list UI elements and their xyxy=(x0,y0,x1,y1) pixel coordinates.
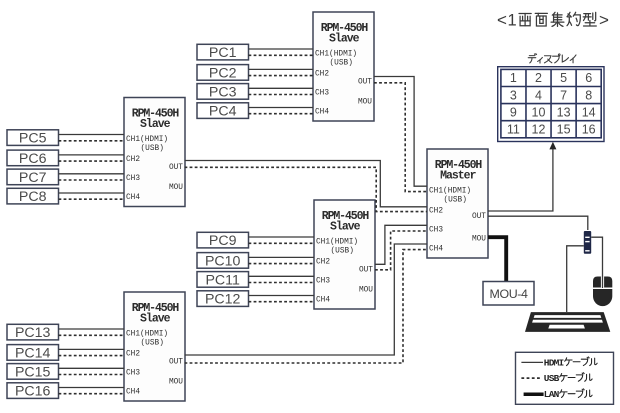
svg-text:CH2: CH2 xyxy=(126,350,140,358)
arrowhead into display xyxy=(549,142,556,150)
svg-text:MOU: MOU xyxy=(358,99,372,107)
svg-text:USB: USB xyxy=(544,373,560,384)
computer PC15 xyxy=(7,364,59,381)
HDMI wire PC9 to CH1 xyxy=(249,236,315,238)
legend HDMI cable sample xyxy=(521,361,543,363)
svg-text:Slave: Slave xyxy=(330,221,361,234)
USB wire PC1 to CH1 xyxy=(249,54,314,56)
USB wire PC5 to CH1 xyxy=(59,140,125,142)
svg-text:OUT: OUT xyxy=(472,213,486,221)
svg-text:PC1: PC1 xyxy=(209,45,237,61)
svg-text:CH1(HDMI): CH1(HDMI) xyxy=(315,51,357,59)
svg-text:CH1(HDMI): CH1(HDMI) xyxy=(126,331,168,339)
svg-text:HDMI: HDMI xyxy=(544,357,564,368)
svg-text:5: 5 xyxy=(560,71,567,85)
svg-text:CH2: CH2 xyxy=(315,70,329,78)
HDMI wire PC11 to CH3 xyxy=(249,275,315,277)
svg-text:CH3: CH3 xyxy=(429,226,443,234)
svg-text:9: 9 xyxy=(510,105,517,119)
svg-text:PC12: PC12 xyxy=(205,292,241,308)
mouse cable slit xyxy=(601,276,604,287)
svg-text:Slave: Slave xyxy=(140,313,171,326)
computer PC7 xyxy=(7,169,59,186)
HDMI wire PC10 to CH2 xyxy=(249,256,315,258)
svg-text:CH1(HDMI): CH1(HDMI) xyxy=(316,239,358,247)
svg-text:CH4: CH4 xyxy=(315,108,329,116)
USB wire PC9 to CH1 xyxy=(249,242,315,244)
svg-text:>: > xyxy=(599,11,609,30)
MOU-4 box xyxy=(483,282,534,306)
HDMI wire PC6 to CH2 xyxy=(59,154,125,156)
HDMI wire Master OUT to display (with arrow) xyxy=(488,148,553,211)
svg-text:CH3: CH3 xyxy=(126,175,140,183)
svg-text:MOU: MOU xyxy=(169,379,183,387)
svg-text:PC2: PC2 xyxy=(209,65,237,81)
svg-text:4: 4 xyxy=(535,88,542,102)
svg-text:CH4: CH4 xyxy=(429,245,443,253)
svg-text:OUT: OUT xyxy=(358,78,372,86)
svg-text:CH3: CH3 xyxy=(315,89,329,97)
svg-text:16: 16 xyxy=(582,122,596,136)
svg-text:PC13: PC13 xyxy=(15,325,51,341)
display (monitor grid) xyxy=(498,67,604,142)
USB wire PC2 to CH2 xyxy=(249,75,314,77)
USB wire PC8 to CH4 xyxy=(59,198,125,200)
unit S3 RPM-450H Slave xyxy=(314,200,375,309)
HDMI wire PC7 to CH3 xyxy=(59,173,125,175)
svg-text:7: 7 xyxy=(560,88,567,102)
HDMI wire PC15 to CH3 xyxy=(59,367,125,369)
USB wire PC10 to CH2 xyxy=(249,263,315,265)
svg-text:Master: Master xyxy=(440,170,477,183)
computer PC4 xyxy=(197,103,249,120)
svg-text:PC6: PC6 xyxy=(19,151,47,167)
computer PC13 xyxy=(7,324,59,341)
svg-text:(USB): (USB) xyxy=(141,340,164,348)
svg-text:CH4: CH4 xyxy=(316,296,330,304)
HDMI wire S3 OUT to Master CH3 xyxy=(375,225,427,264)
svg-text:PC10: PC10 xyxy=(205,253,241,269)
USB wire PC11 to CH3 xyxy=(249,282,315,284)
wire dongle to mouse xyxy=(591,237,602,288)
USB wire S4 OUT to Master CH4 xyxy=(185,250,428,363)
computer PC12 xyxy=(197,291,249,308)
svg-text:CH3: CH3 xyxy=(316,277,330,285)
svg-text:CH2: CH2 xyxy=(316,258,330,266)
legend box xyxy=(516,352,614,404)
svg-text:11: 11 xyxy=(507,122,520,136)
USB wire S3 OUT to Master CH3 xyxy=(375,231,427,270)
svg-text:CH4: CH4 xyxy=(126,194,140,202)
HDMI wire PC16 to CH4 xyxy=(59,387,125,389)
USB wire S2 OUT to Master CH2 xyxy=(185,167,428,211)
svg-text:LAN: LAN xyxy=(544,389,560,400)
USB wire PC12 to CH4 xyxy=(249,301,315,303)
computer PC14 xyxy=(7,345,59,362)
svg-text:PC8: PC8 xyxy=(19,189,47,205)
svg-text:PC4: PC4 xyxy=(209,104,237,120)
svg-text:Slave: Slave xyxy=(329,33,360,46)
HDMI wire PC3 to CH3 xyxy=(249,87,314,89)
svg-text:3: 3 xyxy=(510,88,517,102)
computer PC9 xyxy=(197,232,249,249)
USB wire PC6 to CH2 xyxy=(59,160,125,162)
svg-text:MOU: MOU xyxy=(359,287,373,295)
computer PC11 xyxy=(197,272,249,289)
unit S4 RPM-450H Slave xyxy=(124,292,185,401)
svg-text:15: 15 xyxy=(557,122,571,136)
mouse button divider xyxy=(593,288,613,290)
HDMI wire S2 OUT to Master CH2 xyxy=(185,161,428,207)
svg-text:PC15: PC15 xyxy=(15,364,51,380)
svg-text:13: 13 xyxy=(557,105,571,119)
USB wire PC16 to CH4 xyxy=(59,393,125,395)
legend LAN cable sample xyxy=(524,393,544,397)
wire Master OUT to USB receiver xyxy=(488,216,588,230)
svg-text:CH1(HDMI): CH1(HDMI) xyxy=(126,136,168,144)
svg-text:Slave: Slave xyxy=(140,118,171,131)
USB wire PC7 to CH3 xyxy=(59,179,125,181)
HDMI wire PC2 to CH2 xyxy=(249,68,314,70)
keyboard icon xyxy=(525,312,610,332)
svg-text:8: 8 xyxy=(585,88,592,102)
computer PC5 xyxy=(7,130,59,147)
LAN wire Master MOU to MOU-4 (thick) xyxy=(488,237,506,281)
svg-text:1: 1 xyxy=(508,12,517,30)
unit S1 RPM-450H Slave xyxy=(313,12,374,121)
svg-text:PC7: PC7 xyxy=(19,170,47,186)
HDMI wire S1 OUT to Master CH1 xyxy=(374,77,427,187)
svg-text:<: < xyxy=(497,11,507,30)
computer PC6 xyxy=(7,150,59,167)
svg-text:OUT: OUT xyxy=(169,164,183,172)
svg-text:(USB): (USB) xyxy=(141,145,164,153)
svg-text:14: 14 xyxy=(582,105,596,119)
svg-text:PC3: PC3 xyxy=(209,84,237,100)
svg-text:12: 12 xyxy=(532,122,546,136)
svg-text:(USB): (USB) xyxy=(331,248,354,256)
unit M RPM-450H Master xyxy=(427,149,488,258)
mouse icon xyxy=(593,277,612,307)
svg-text:CH1(HDMI): CH1(HDMI) xyxy=(429,188,471,196)
title <1画面集約型> xyxy=(497,11,609,30)
computer PC16 xyxy=(7,383,59,400)
legend USB cable sample xyxy=(521,377,542,379)
computer PC10 xyxy=(197,253,249,270)
HDMI wire S4 OUT to Master CH4 xyxy=(185,244,428,355)
svg-text:MOU: MOU xyxy=(169,184,183,192)
HDMI wire PC5 to CH1 xyxy=(59,134,125,136)
svg-text:PC9: PC9 xyxy=(209,233,237,249)
HDMI wire PC13 to CH1 xyxy=(59,328,125,330)
svg-text:2: 2 xyxy=(535,71,542,85)
HDMI wire PC4 to CH4 xyxy=(249,107,314,109)
svg-text:10: 10 xyxy=(532,105,546,119)
svg-text:MOU: MOU xyxy=(472,236,486,244)
wire dongle to keyboard xyxy=(567,246,584,312)
svg-text:(USB): (USB) xyxy=(330,60,353,68)
unit S2 RPM-450H Slave xyxy=(124,98,185,207)
svg-text:CH2: CH2 xyxy=(429,207,443,215)
svg-text:OUT: OUT xyxy=(359,266,373,274)
HDMI wire PC14 to CH2 xyxy=(59,348,125,350)
USB wire PC14 to CH2 xyxy=(59,355,125,357)
computer PC8 xyxy=(7,188,59,205)
svg-text:PC14: PC14 xyxy=(15,345,51,361)
display label ディスプレイ xyxy=(528,54,576,64)
HDMI wire PC12 to CH4 xyxy=(249,295,315,297)
computer PC3 xyxy=(197,84,249,101)
USB wire PC4 to CH4 xyxy=(249,113,314,115)
svg-text:PC5: PC5 xyxy=(19,131,47,147)
svg-text:MOU-4: MOU-4 xyxy=(490,287,528,301)
svg-text:OUT: OUT xyxy=(169,358,183,366)
svg-text:CH2: CH2 xyxy=(126,156,140,164)
USB wire PC3 to CH3 xyxy=(249,94,314,96)
USB wire S1 OUT to Master CH1 xyxy=(374,83,427,192)
svg-text:6: 6 xyxy=(585,71,592,85)
svg-text:PC16: PC16 xyxy=(15,384,51,400)
USB wire PC13 to CH1 xyxy=(59,334,125,336)
HDMI wire PC1 to CH1 xyxy=(249,48,314,50)
svg-text:PC11: PC11 xyxy=(205,272,240,288)
computer PC2 xyxy=(197,65,249,82)
HDMI wire PC8 to CH4 xyxy=(59,192,125,194)
svg-text:(USB): (USB) xyxy=(444,197,467,205)
computer PC1 xyxy=(197,44,249,61)
svg-text:1: 1 xyxy=(510,71,517,85)
svg-text:CH3: CH3 xyxy=(126,369,140,377)
USB receiver dongle xyxy=(584,231,591,254)
svg-text:CH4: CH4 xyxy=(126,388,140,396)
USB wire PC15 to CH3 xyxy=(59,374,125,376)
